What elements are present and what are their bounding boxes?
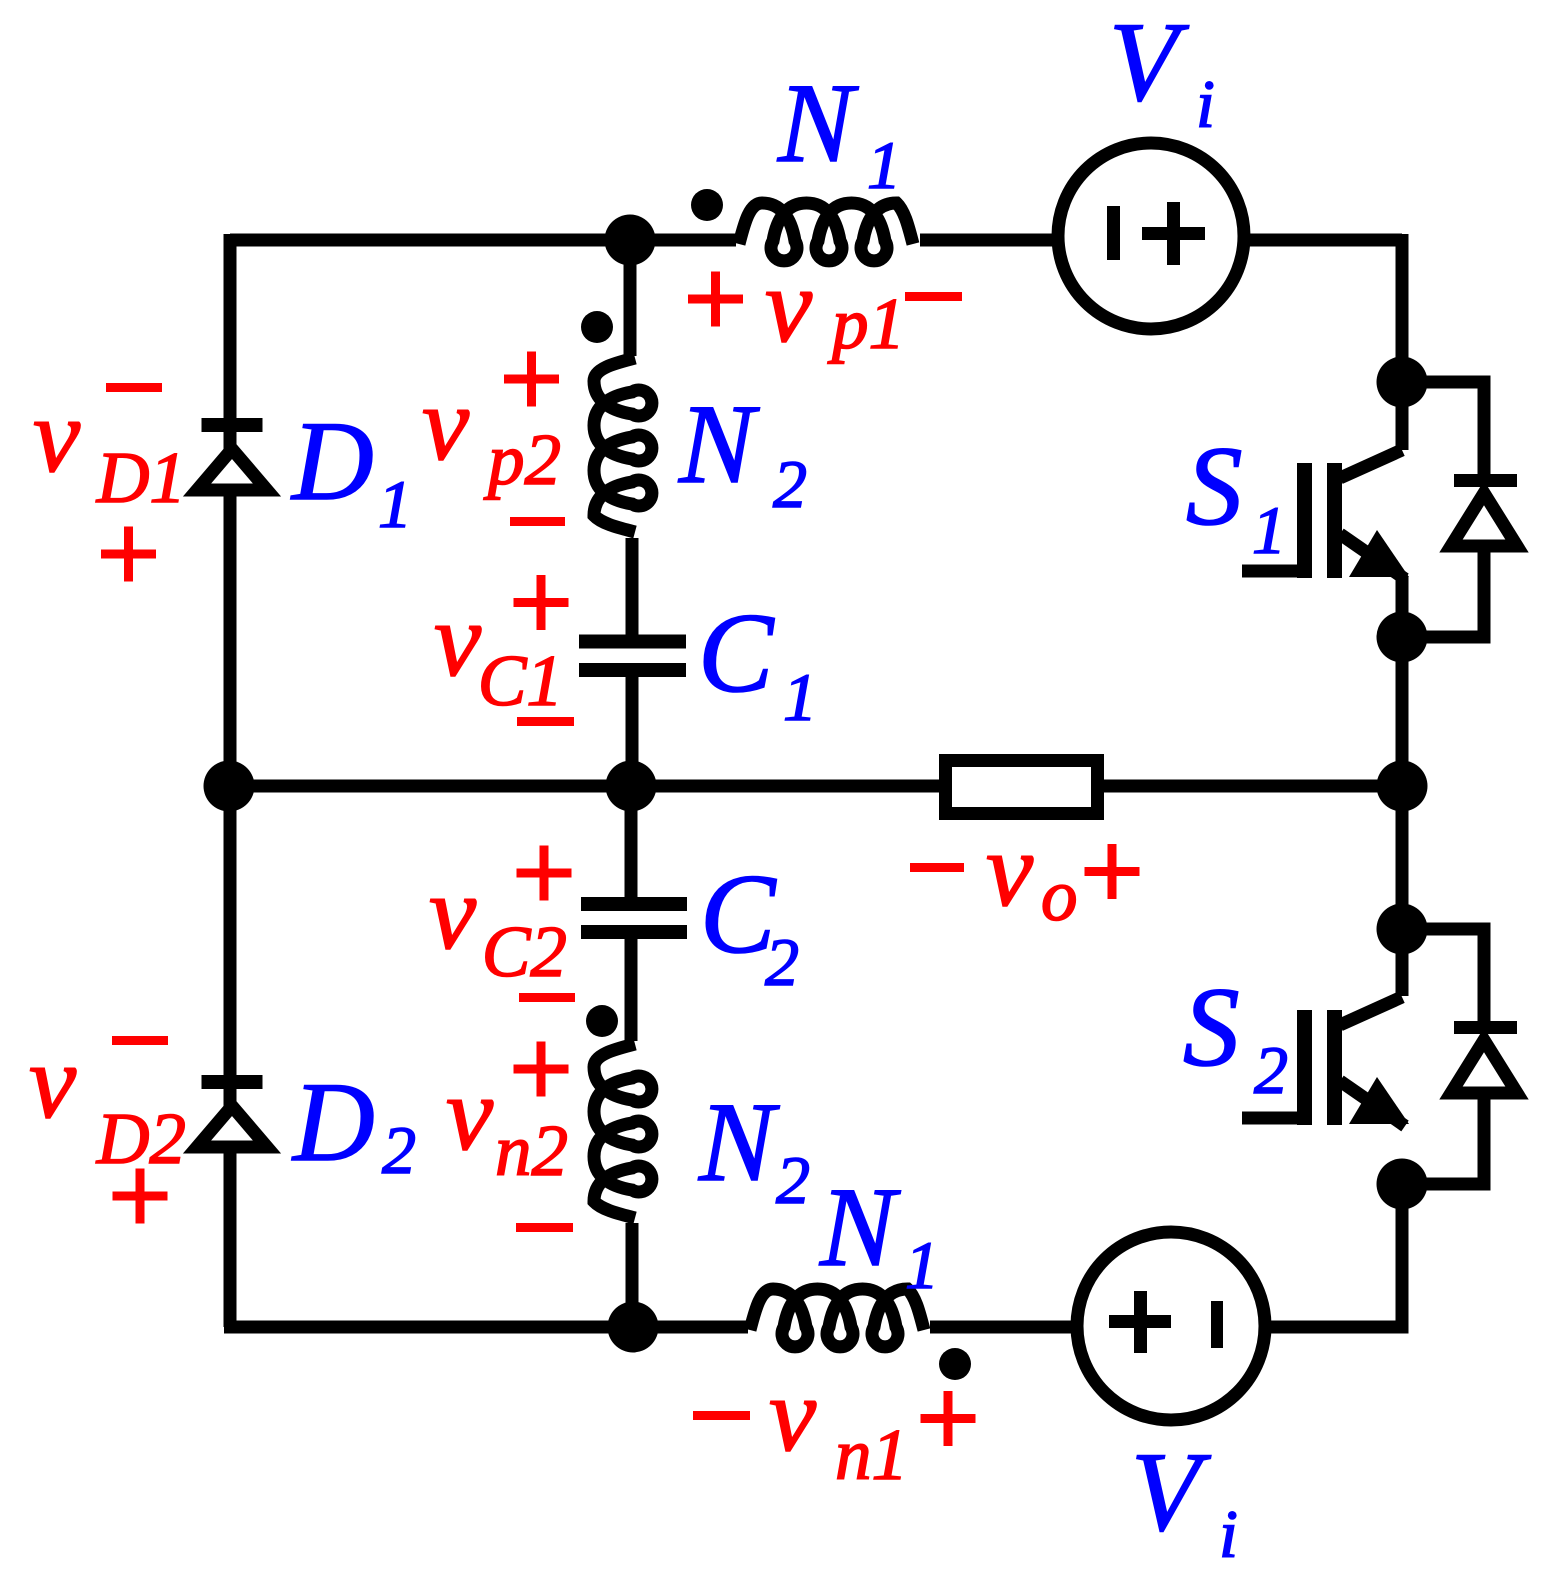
svg-text:v: v: [769, 1356, 817, 1473]
label vD1 plus: [101, 527, 156, 582]
svg-text:2: 2: [773, 446, 807, 522]
label vC2 minus: [519, 993, 575, 1002]
wire bottom-left horizontal segment: [224, 1321, 748, 1334]
svg-text:N: N: [819, 1165, 901, 1290]
node I (S2 emitter): [1377, 1159, 1428, 1210]
svg-text:C1: C1: [478, 640, 563, 721]
transistor S1 gate bar: [1297, 463, 1312, 578]
svg-text:i: i: [1219, 1496, 1238, 1572]
svg-text:C2: C2: [482, 911, 567, 992]
dot marker top N1 winding: [691, 189, 723, 221]
node G (output right): [1377, 761, 1428, 812]
label vC1 minus: [517, 717, 574, 726]
node D (bottom transformer tap): [608, 1302, 659, 1353]
wire center column lower N2 to bottom node: [626, 1223, 639, 1327]
anti-parallel diode of S2: wiring: [1402, 929, 1484, 1022]
label vp2 minus: [510, 517, 565, 526]
label vp2 plus: [504, 352, 559, 407]
transistor S2 gate bar: [1297, 1010, 1312, 1125]
label vp1 plus: [688, 272, 743, 327]
svg-text:D1: D1: [96, 437, 186, 518]
anti-parallel diode of S2: cathode bar: [1454, 1021, 1517, 1034]
transistor S1 (IGBT) gate lead: [1242, 565, 1300, 578]
svg-text:i: i: [1196, 66, 1215, 142]
label vD1 minus: [106, 383, 162, 392]
svg-text:v: v: [422, 365, 470, 482]
label vD2 plus: [113, 1169, 168, 1224]
node F (S1 emitter): [1377, 612, 1428, 663]
svg-text:v: v: [429, 854, 477, 971]
svg-text:N: N: [698, 1080, 780, 1205]
anti-parallel diode of S1: cathode bar: [1454, 474, 1517, 487]
wire top-left horizontal segment: [230, 234, 736, 247]
wire center column middle node to C2: [625, 786, 638, 903]
diode D1: [197, 449, 267, 490]
inductor N2 (lower secondary winding): [594, 1044, 652, 1218]
svg-text:p2: p2: [483, 419, 561, 500]
svg-text:D: D: [290, 399, 374, 524]
voltage source Vi (top): [1058, 143, 1244, 329]
label vn1 plus: [921, 1391, 976, 1446]
svg-text:D2: D2: [96, 1098, 186, 1179]
svg-text:2: 2: [1254, 1032, 1288, 1108]
capacitor C2: [581, 897, 687, 911]
svg-text:v: v: [986, 811, 1034, 928]
svg-text:n2: n2: [495, 1110, 568, 1191]
wire bottom between N1 coil and Vi source: [930, 1321, 1078, 1334]
node H (S2 collector): [1377, 904, 1428, 955]
capacitor C1: [579, 635, 686, 649]
wire top-right to corner and down: [1243, 234, 1402, 247]
wire right rail middle (S1 emitter to S2 collector): [1396, 577, 1409, 996]
svg-text:v: v: [434, 581, 482, 698]
svg-text:v: v: [446, 1055, 494, 1172]
label vp1 minus: [905, 292, 962, 301]
label vn2 minus: [516, 1223, 573, 1232]
wire center column C2 to lower N2 coil: [625, 932, 638, 1041]
wire right rail upper (corner to S1 collector): [1396, 234, 1409, 450]
label vn2 plus: [514, 1042, 569, 1097]
anti-parallel diode of S1: wiring: [1402, 382, 1484, 475]
transistor S2 (IGBT) gate lead: [1242, 1112, 1300, 1125]
anti-parallel diode of S2: triangle: [1451, 1040, 1517, 1093]
svg-text:V: V: [1131, 1430, 1211, 1555]
svg-text:2: 2: [382, 1112, 416, 1188]
svg-text:p1: p1: [827, 283, 905, 364]
dot marker upper N2 winding: [581, 311, 613, 343]
resistor Ro (output load): [946, 761, 1098, 814]
svg-text:1: 1: [783, 659, 817, 735]
svg-text:V: V: [1109, 0, 1189, 125]
label vC1 plus: [514, 575, 569, 630]
wire middle horizontal (output branch): [229, 780, 1402, 793]
svg-text:1: 1: [905, 1227, 939, 1303]
transistor S1 emitter lead: [1340, 534, 1405, 579]
transistor S1 body bar: [1327, 463, 1342, 578]
svg-text:2: 2: [776, 1142, 810, 1218]
wire center column C1 to middle node: [626, 671, 639, 786]
svg-text:n1: n1: [835, 1414, 908, 1495]
dot marker bottom N1 winding: [939, 1348, 971, 1380]
svg-text:v: v: [29, 1023, 77, 1140]
svg-text:o: o: [1041, 855, 1078, 936]
svg-text:1: 1: [1252, 492, 1286, 568]
anti-parallel diode of S1: triangle: [1451, 493, 1517, 546]
wire top between N1 coil and Vi source: [920, 234, 1059, 247]
inductor N1 (bottom primary winding): [750, 1289, 924, 1347]
node E (S1 collector): [1377, 357, 1428, 408]
label vo plus: [1085, 844, 1140, 899]
inductor N1 (top primary winding): [739, 203, 913, 261]
svg-text:S: S: [1186, 424, 1243, 549]
wire center column N2 to C1: [626, 538, 639, 640]
transistor S2 emitter lead: [1340, 1081, 1405, 1126]
transistor S1 collector lead: [1340, 450, 1402, 478]
node A (top transformer tap): [605, 215, 656, 266]
label vD2 minus: [112, 1036, 168, 1045]
inductor N2 (upper secondary winding): [594, 358, 652, 532]
voltage source Vi (bottom): [1077, 1232, 1265, 1420]
transistor S2 emitter arrow: [1349, 1077, 1409, 1124]
svg-text:N: N: [678, 382, 760, 507]
dot marker lower N2 winding: [586, 1005, 618, 1037]
svg-text:1: 1: [378, 466, 412, 542]
svg-text:v: v: [765, 247, 813, 364]
transistor S2 body bar: [1327, 1010, 1342, 1125]
diode D2: [197, 1106, 267, 1147]
svg-text:D: D: [291, 1060, 375, 1185]
svg-text:N: N: [777, 61, 859, 186]
svg-text:2: 2: [765, 924, 799, 1000]
transistor S2 collector lead: [1340, 997, 1402, 1025]
svg-text:1: 1: [867, 127, 901, 203]
label vn1 minus: [693, 1411, 750, 1420]
transistor S1 emitter arrow: [1349, 530, 1409, 577]
label vo minus: [910, 863, 964, 872]
label vC2 plus: [517, 846, 572, 901]
svg-text:S: S: [1183, 965, 1240, 1090]
wire center column top (node to N2 coil): [624, 240, 637, 356]
node B (left mid rail): [204, 761, 255, 812]
svg-text:v: v: [33, 377, 81, 494]
wire left rail (full height): [224, 234, 237, 1327]
node C (center mid): [606, 761, 657, 812]
wire bottom-right corner segment: [1264, 1184, 1402, 1327]
svg-text:C: C: [698, 591, 775, 716]
